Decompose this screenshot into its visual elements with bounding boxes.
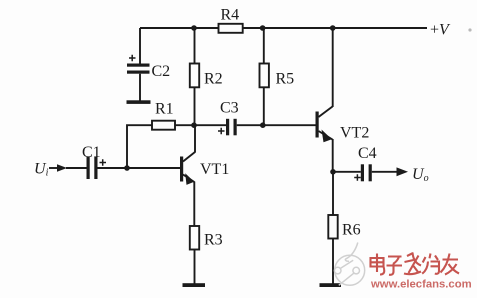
wire arrow to C1 [66,167,87,169]
wire output node to C4 [333,171,361,173]
wire R5 to base node [263,87,265,125]
watermark logo circle [334,243,364,286]
wire R3 to ground [194,250,196,285]
wire top supply rail [140,27,427,29]
svg-text:R4: R4 [221,7,240,24]
svg-text:VT2: VT2 [340,125,369,142]
ground (R6) [320,283,342,287]
wire node B to VT2 base [263,124,316,126]
ground (C2) [127,100,151,104]
svg-text:www.elecfans.com: www.elecfans.com [370,279,472,291]
svg-text:C2: C2 [152,63,171,80]
resistor R2 [190,64,223,88]
wire C3 to node B [237,124,263,126]
resistor R6 [328,215,360,239]
wire C2 to ground [139,74,141,101]
wire C4 to output arrow [372,171,399,173]
ground (R3) [183,283,206,287]
resistor R4 [219,7,243,33]
svg-text:C4: C4 [358,145,377,162]
node output junction [330,169,336,175]
watermark text dianzi fashaoyou [371,253,460,275]
wire VT1 collector up to node A [194,125,196,153]
node junction rail-R5 [260,25,266,31]
svg-text:R5: R5 [276,71,295,88]
wire output node to R6 [332,172,334,215]
svg-text:R2: R2 [204,71,223,88]
wire R1 left down to base node [127,125,152,168]
wire R1 right to node A [175,124,194,126]
svg-text:R6: R6 [342,222,361,239]
wire node A to C3 [194,124,226,126]
svg-text:C1: C1 [82,144,101,161]
wire R2 to collector node [194,87,196,125]
resistor R1 [152,101,175,130]
wire R2 branch upper [194,28,196,64]
svg-text:C3: C3 [220,100,239,117]
node A collector VT1 junction [191,122,197,128]
faint artifact dot [468,28,471,31]
svg-text:R1: R1 [155,101,174,118]
wire R6 to ground [332,239,334,285]
capacitor C3 [218,100,239,136]
capacitor C1 [82,144,106,179]
svg-text:R3: R3 [204,232,223,249]
transistor VT2 [316,107,370,143]
resistor R3 [190,226,223,250]
node base VT1 junction [124,165,130,171]
capacitor C2 [127,55,170,80]
svg-text:+V: +V [430,22,451,39]
input arrow [49,164,67,172]
node junction rail-R2 [191,25,197,31]
node B base VT2 junction [260,122,266,128]
wire VT2 emitter to output node [332,139,334,172]
wire VT1 emitter down to R3 [193,182,195,227]
output arrow [397,167,409,176]
wire C1 to base node [98,167,181,169]
wire VT2 collector to rail [332,28,334,107]
transistor VT1 [180,152,229,185]
wire R5 branch upper [263,28,265,64]
node junction rail-VT2 collector [330,25,336,31]
resistor R5 [260,64,295,88]
wire C2 branch from rail [139,28,141,64]
capacitor C4 [354,145,376,181]
svg-text:VT1: VT1 [200,161,229,178]
